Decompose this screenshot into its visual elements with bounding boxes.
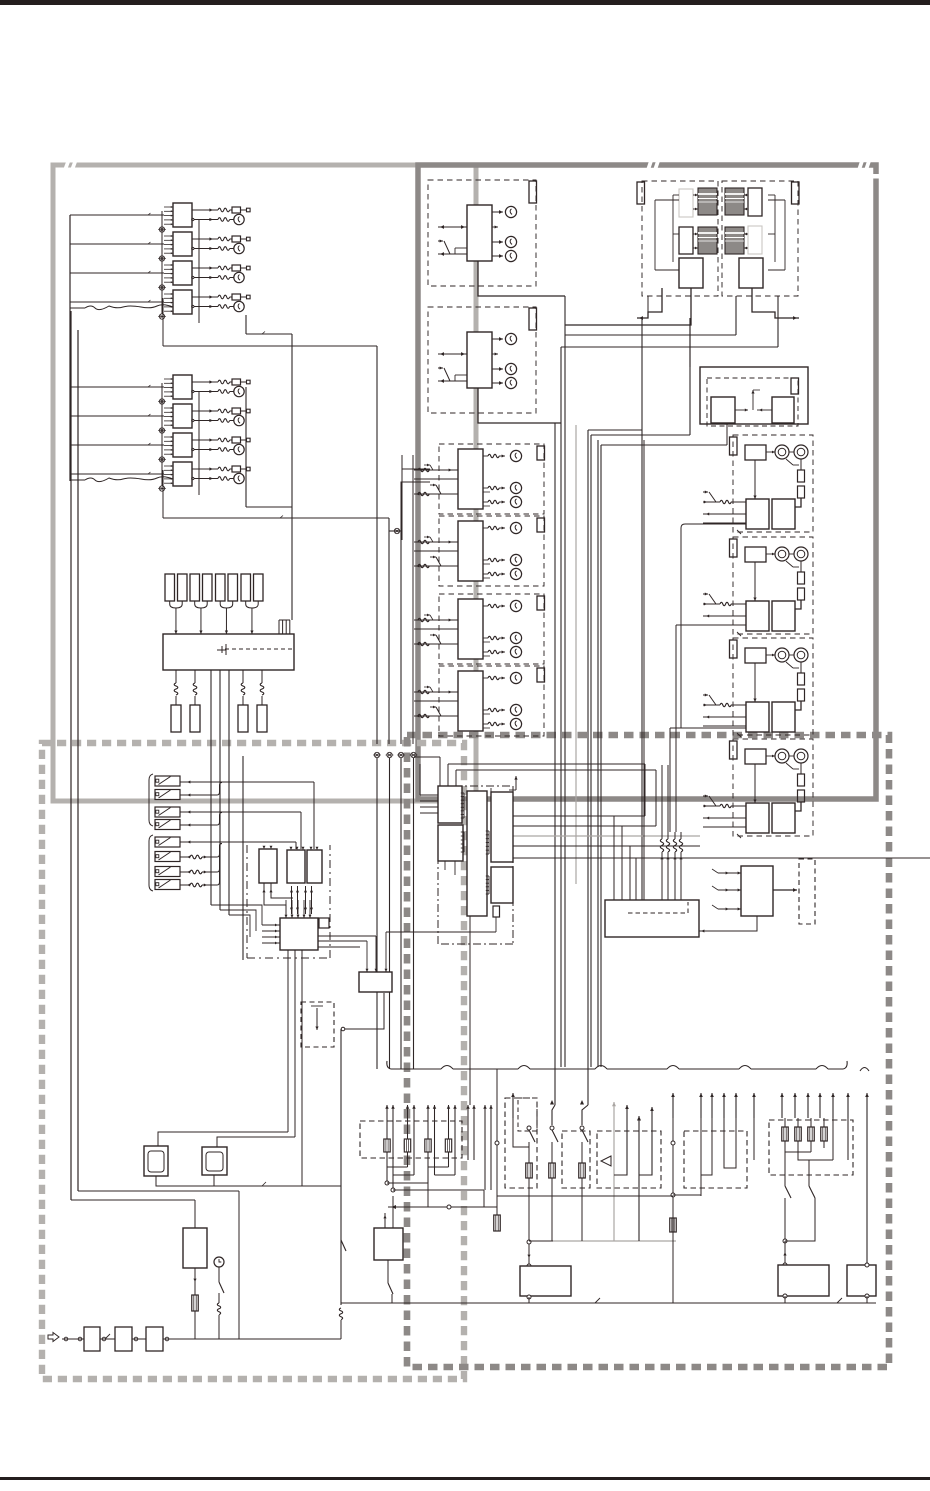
ground GB2 [159,428,164,433]
ground G2 [387,752,392,757]
motor G1M2 [794,445,808,459]
block S1 [679,258,703,288]
fuse FB4 [232,466,241,472]
wire relay B1 out2 [192,390,194,392]
staircase joins [387,1166,408,1168]
wire G4 motor drop [800,763,802,774]
fuse LF [384,1139,390,1152]
block R1 [711,397,735,423]
wire D1 out [156,1176,341,1186]
circuit P2 [550,1100,554,1105]
connector T3 [238,705,248,732]
fuse x497 [494,1215,501,1231]
block G22 [746,601,769,631]
unit U1 dashed enclosure [428,180,536,286]
block G11 [745,445,766,460]
seat connector assembly enclosures [642,181,718,296]
ECU block E1 [438,786,462,823]
fuse LF [425,1139,431,1152]
wire M2 in2 [414,550,458,552]
lamp LB4 [234,473,244,483]
block G32 [746,702,769,732]
wire trunk tops [588,429,642,431]
ground G4 [411,752,416,757]
wire relay trio to K1 (double arrows) [291,886,293,914]
control block K1 [280,918,318,950]
zone frame B (dark solid) [418,165,876,799]
airbag unit enclosure [597,1131,661,1188]
switch M3 [436,635,441,644]
wire G2 r drop [795,600,801,609]
wire G1 block drop [754,460,756,499]
lamp LA4 [234,301,244,311]
arrow terminal [781,1093,783,1118]
switch SW-B2 [155,852,180,862]
connector tab M4 [537,668,545,682]
connector T1 [171,705,181,732]
lamp M2b [483,559,488,561]
wire B4 feeds [384,1196,386,1228]
wire motor loop 3 [670,727,746,729]
ground GB1 [159,399,164,404]
control box B1 [778,1265,829,1296]
connector tab M1 [537,446,545,460]
resistor G2R2 [798,588,805,600]
arrow terminal [512,1093,514,1118]
wire relay out drop 2 [245,387,247,507]
switch M1 [436,485,441,494]
control box B3 [520,1266,571,1296]
wire G2 inputs [703,593,708,595]
airbag wires [614,1105,627,1175]
lamp LA3 [234,272,244,282]
arrow wire [454,1105,456,1175]
wire M3 in3 [414,643,458,645]
pin comb c1 [461,792,464,794]
block M4 [458,671,483,731]
wire G3 m-links [766,654,775,656]
connector tab G1 [730,437,738,455]
wire trunk h5 [389,530,401,532]
ECU block E4 [491,792,513,862]
wire relay B4 out2 [192,477,194,479]
wire assembly out-right [752,288,799,318]
wire G2 block drop [754,562,756,601]
wire fuse pair 2 [195,601,208,608]
ignition box IG2 [115,1327,132,1351]
fuse FA2 [232,236,241,242]
connector tab G2 [730,539,738,557]
ignition box IG3 [146,1327,163,1351]
wire B2 feed [866,1118,868,1265]
fuse f8 [254,574,264,601]
circuit P1 enclosure [505,1098,537,1188]
cluster Q1 enclosure [684,1131,747,1188]
switch group B bracket [149,835,153,891]
connector white W2 [748,188,762,216]
wire G1 m-links [766,451,775,453]
wire relay R1 stepped drops [264,883,286,916]
wire M3 in2 [414,628,458,630]
switch SW-B1 [155,837,180,847]
junction block J/B [163,634,294,670]
wire K1 jogs [211,905,262,925]
wire motor loops [681,524,746,728]
wire M feeds [401,455,403,540]
arrow terminal [832,1093,834,1118]
fuse FB3 [232,437,241,443]
wire wavy branch B [85,477,173,482]
zone frame C (light dashed) [42,743,464,1379]
wire x673 chain [672,1118,674,1303]
wire relay A4 out1 [192,296,218,298]
unit U2 dashed enclosure [428,307,536,413]
switch group A bracket [149,774,153,826]
relay R1 [259,849,277,883]
switch SW-A4 [155,820,180,830]
battery [183,1228,207,1268]
resistor G3R1 [798,673,805,685]
wire G2 m-links [766,553,775,555]
wire trunk v4 [388,518,390,531]
wire K1 bottom drops [287,950,289,1132]
ground G3 [398,752,403,757]
lamp LB3 [234,444,244,454]
fuse cluster enclosure [360,1121,462,1158]
wire K3 link [334,1025,341,1069]
block G12 [746,499,769,529]
wire K1 top inputs [285,900,287,918]
wire ECU up arrow [515,776,517,790]
wire G4 m-links [766,755,775,757]
arrow terminal [700,1093,702,1118]
arrow wire [413,1105,415,1175]
wire assembly drop mid [689,318,691,367]
wire K2 output [343,993,384,1029]
block G33 [772,702,795,732]
motor G4M2 [794,749,808,763]
bus hash marks [595,1298,600,1303]
unit M4 dashed enclosure [439,666,544,736]
coil feed [418,468,429,471]
circuit P3 [580,1100,584,1105]
wire G4 r drop [795,802,801,811]
pin comb c2 [461,831,464,833]
block U2 [467,332,492,388]
fuse main [192,1295,199,1311]
wire MG pins [693,194,698,196]
fuse LF [404,1139,410,1152]
block G21 [745,547,766,562]
arrow wire [448,1105,450,1167]
chain wire [62,1338,84,1340]
wire D1 feed [158,1132,288,1146]
wire relay A2 out2 [192,247,194,249]
wire M4 in1 [414,691,458,693]
wire J/B drop 2 [194,670,196,683]
switch SW-B3 [155,867,180,877]
arrow terminal [819,1093,821,1118]
block M1 [458,449,483,509]
wire trunk v8 [587,430,589,1105]
block G13 [772,499,795,529]
fuse FB1 [232,379,241,385]
lamp LB2 [234,415,244,425]
cluster Q1 wires [701,1118,712,1175]
fuse f6 [228,574,238,601]
connector tab R [791,378,799,394]
motor group G2 enclosure [733,537,813,634]
wire U1 out trunk [564,296,566,1067]
connector tab right [792,182,800,204]
wire relay B1 out1 [192,381,218,383]
coil feed [418,540,429,543]
wire relay B2 out2 [192,419,194,421]
fuse f1 [165,574,175,601]
clock [214,1257,224,1267]
wire trunk h3 [246,506,292,508]
connector white W4 [748,226,762,254]
wire D2 out [213,1175,215,1186]
relay R3 [307,850,322,883]
switch long drop [341,1098,347,1112]
resistor G1R2 [798,486,805,498]
switch SW-A1 [155,776,180,786]
arrow terminal [866,1093,868,1118]
lamp LB1 [234,386,244,396]
fuse f2 [178,574,188,601]
wire U2 output [478,388,561,423]
wire clock drop [218,1267,220,1282]
wire U2 input 1 [438,353,467,355]
wire G2 motor drop [800,561,802,572]
resistor G4R2 [798,790,805,802]
wire G3 inputs [703,694,708,696]
pin comb c4 [486,875,489,877]
fuse f3 [190,574,200,601]
ignition box IG1 [84,1327,100,1351]
reference arrows right of cluster [467,1105,469,1160]
wire seat switch inputs [718,872,741,874]
wire U1 input 1 [438,226,467,228]
control box B2 [847,1265,876,1296]
wire inner link bank A [161,211,163,314]
wire relay A2 out1 [192,238,218,240]
wire assembly h long 2 [561,346,778,348]
motor unit MG4 (gray) [725,227,744,254]
wire Q2 drops [784,1152,786,1175]
arrow wire [407,1105,409,1167]
connector white W1 [679,189,693,217]
fuse FA4 [232,294,241,300]
lamp U1b [492,241,503,243]
block G41 [745,749,766,764]
display D2 [202,1147,227,1175]
wire inner link bank B [161,383,163,486]
wire G1 r drop [795,498,801,507]
wire B4 out [387,1260,389,1283]
wire bus end curls [387,1061,391,1069]
lamp M1a [483,455,488,457]
arrow terminal [711,1093,713,1118]
arrow terminal [672,1093,674,1118]
wire relay A3 out2 [192,276,194,278]
cluster Q2 joins [785,1141,811,1152]
lamp M3c [483,651,488,653]
wire seat ECU out [699,916,757,931]
wire seat switch output [773,889,797,891]
ignition chain arrow [48,1333,59,1342]
arrow wire [434,1105,436,1175]
resistor G4R1 [798,774,805,786]
block G23 [772,601,795,631]
wire bus isolated hop [860,1068,869,1072]
unit M1 dashed enclosure [439,444,544,514]
arrow terminal [807,1093,809,1118]
wire left bus vertical [69,215,71,481]
wire M1 in1 [414,469,458,471]
connector (dashed) CN [799,859,815,924]
arrow terminal [753,1093,755,1118]
wire lower-left h [78,1190,239,1192]
ECU block E5 [491,867,513,903]
wire U2 out trunk [560,347,562,1067]
wire G4 inputs [703,795,708,797]
relay A2 [173,232,192,256]
wire M1 in3 [414,493,458,495]
switch Q2a [784,1152,786,1186]
dashed unit K3 [301,1002,334,1047]
connector tab U2 [529,308,537,330]
wire R inner [735,409,748,411]
relay A4 [173,290,192,314]
wire feed left verticals [376,519,378,744]
ground row G1 [374,752,379,757]
block G31 [745,648,766,663]
unit M3 dashed enclosure [439,594,544,664]
lamp M2c [483,573,488,575]
wire relay B3 out2 [192,448,194,450]
wire battery out [194,1268,196,1295]
wire ECU left inputs [420,794,438,796]
motor group G1 enclosure [733,435,813,532]
wire grounds down [376,758,378,1069]
fuse FA3 [232,265,241,271]
pin comb c3 [486,830,489,832]
wire R drops [726,424,728,440]
page bottom rule [0,1477,930,1480]
wire bottom collector [388,1206,497,1208]
wire J/B drop 1 [175,670,177,683]
wire wavy branch A [85,305,173,310]
page top rule [0,0,930,5]
fuse LF [445,1139,451,1152]
connector white W3 [679,227,693,254]
arrow wire [386,1105,388,1183]
wire J/B drop 3 [242,670,244,683]
wire relay A1 out2 [192,218,194,220]
wire bank1 bus ext [162,298,164,346]
wire B3 out [527,1295,531,1299]
wire long drop x341 [340,1029,342,1305]
wire M2 in1 [414,541,458,543]
fuse f7 [241,574,251,601]
wire comb feed [291,505,293,620]
wire riser x497 lower [496,1196,498,1215]
connector tab G4 [730,741,738,759]
resistor G1R1 [798,470,805,482]
wire trunk v3 [291,334,293,505]
wire SW-A pair 3-4 [180,811,301,813]
lamp M3a [483,605,488,607]
connector T4 [257,705,267,732]
wire gray v2 [613,1102,615,1241]
fuse FB2 [232,408,241,414]
relay box B4 [374,1228,403,1260]
lamp U2b [492,368,503,370]
wire fuse pair 4 [246,601,259,608]
junction hash G2 [737,632,741,636]
ground G-mid [394,528,399,533]
airbag symbol (triangle) [601,1156,611,1166]
wire motor loop 4 [470,793,475,816]
connector tab G3 [730,640,738,658]
switch U1 [438,240,443,242]
block R2 [772,397,794,423]
wire M2 in3 [414,565,458,567]
coil feed [418,690,429,693]
wire relay B4 out1 [192,468,218,470]
wire J/B drop 4 [261,670,263,683]
ECU dash-dot enclosure [438,786,513,944]
wire relay A4 out2 [192,305,194,307]
seat switch block [741,866,773,916]
wire ECU outputs right [513,815,645,817]
wire trunk v10 [597,440,599,1067]
motor G2M1 [775,547,789,561]
fuse f5 [216,574,226,601]
fuse FA1 [232,207,241,213]
motor G3M1 [775,648,789,662]
block U1 [467,205,492,261]
lamp M1b [483,487,488,489]
circuit P1 [512,1118,514,1140]
wire trunk v2 [376,346,378,519]
arrow terminal [723,1093,725,1118]
wire relay out drop 1 [245,315,247,334]
ground GB3 [159,457,164,462]
wire trunk v11 [600,445,602,1067]
wire assembly drop 1 [565,288,691,325]
wire fuse pair 1 [170,601,183,608]
block S2 [739,258,763,288]
resistor G2R1 [798,572,805,584]
relay R2 [287,850,305,883]
wire long v243 [242,756,244,960]
display D1 [144,1146,168,1176]
ground GA1 [159,227,164,232]
resistor G3R2 [798,689,805,701]
wire gray v1 [575,425,577,884]
arrow terminal [794,1093,796,1118]
lamp M3b [483,637,488,639]
wire relay A1 out1 [192,209,218,211]
motor G2M2 [794,547,808,561]
motor G3M2 [794,648,808,662]
motor unit MG2 (gray) [725,188,744,215]
wire x341 lower [341,1240,346,1251]
wire bottom mid risers [496,1196,498,1266]
